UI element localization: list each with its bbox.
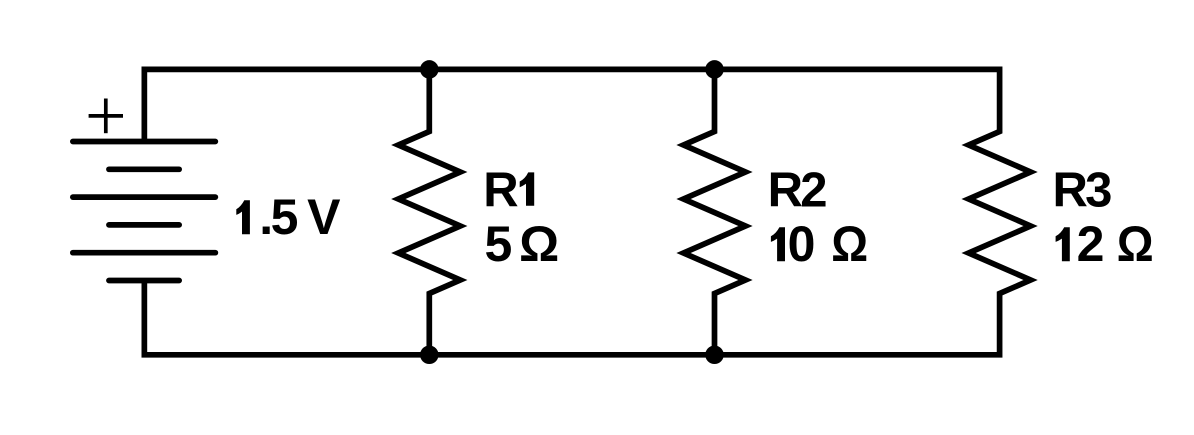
svg-text:2: 2 (1077, 216, 1105, 272)
svg-text:.5 V: .5 V (259, 189, 341, 245)
svg-text:2: 2 (800, 163, 827, 217)
svg-text:3: 3 (1085, 163, 1112, 217)
svg-text:0: 0 (788, 216, 816, 272)
svg-text:Ω: Ω (1117, 217, 1154, 272)
svg-text:R: R (483, 163, 518, 217)
svg-text:R: R (768, 163, 803, 217)
svg-text:R: R (1053, 163, 1088, 217)
svg-text:5 Ω: 5 Ω (485, 216, 560, 272)
svg-text:Ω: Ω (831, 217, 868, 272)
